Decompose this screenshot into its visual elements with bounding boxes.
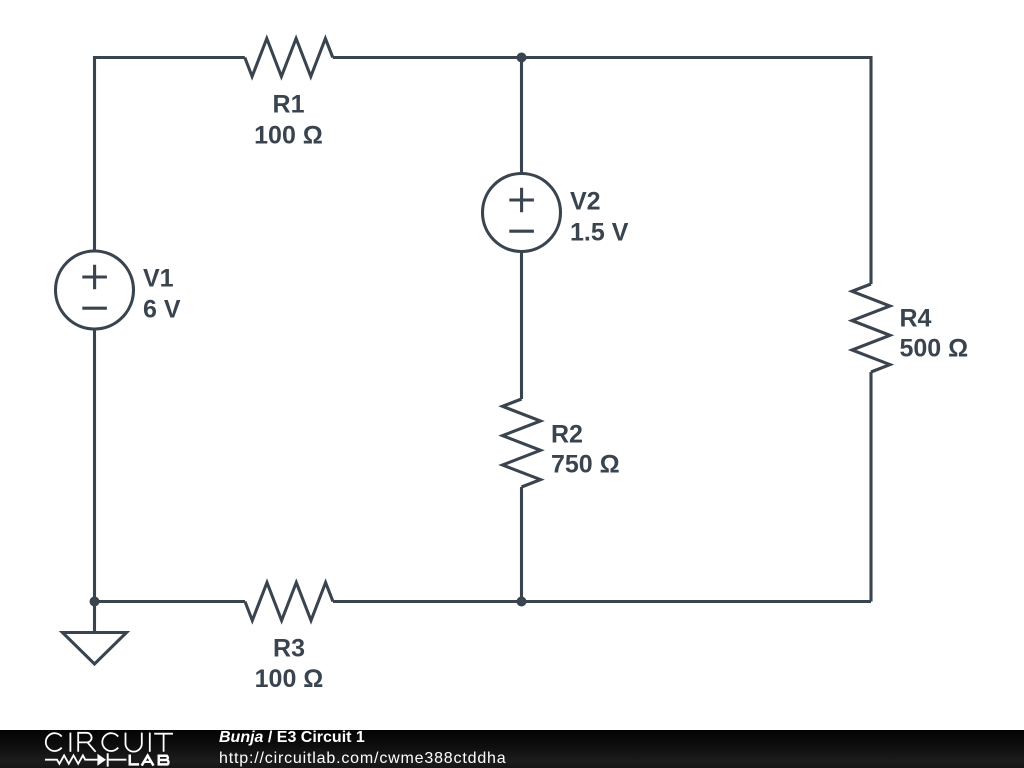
footer url (219, 750, 507, 768)
logo word LAB letter B (159, 755, 169, 766)
svg-text:V2: V2 (570, 188, 601, 216)
voltage source V1 (56, 251, 134, 329)
svg-text:100 Ω: 100 Ω (255, 665, 324, 693)
svg-text:R1: R1 (273, 91, 305, 119)
logo wire after diode (109, 759, 127, 761)
wire middle vertical (node A to V2 plus terminal) (520, 58, 523, 174)
footer title: Bunja / E3 Circuit 1 (219, 729, 365, 747)
svg-text:750 Ω: 750 Ω (551, 451, 620, 479)
logo letter T (154, 734, 173, 752)
svg-text:R2: R2 (551, 421, 583, 449)
wire top-left horizontal (node at V1 top to R1 left lead) (93, 56, 245, 59)
svg-text:100 Ω: 100 Ω (254, 122, 323, 150)
svg-text:6 V: 6 V (143, 296, 181, 324)
svg-text:R4: R4 (900, 305, 932, 333)
resistor R4 (852, 284, 890, 372)
CircuitLab logo (0, 730, 200, 768)
wire bottom horizontal (R3 right lead to node B) (333, 600, 522, 603)
node B junction dot (bottom center) (517, 597, 527, 607)
logo diode cathode bar (107, 753, 109, 766)
voltage source V2 (483, 174, 561, 252)
svg-text:500 Ω: 500 Ω (900, 335, 969, 363)
logo diode triangle (97, 754, 106, 766)
wire top horizontal (node A to top-right corner) (522, 56, 872, 59)
svg-text:R3: R3 (273, 635, 305, 663)
wire left vertical (V1 minus terminal down to ground node) (93, 329, 96, 602)
wire right vertical (R4 bottom lead to bottom-right corner) (869, 372, 872, 602)
logo resistor squiggle (45, 755, 97, 763)
logo letter C (46, 733, 62, 751)
resistor R3 (245, 583, 333, 621)
logo word LAB letter A (142, 756, 154, 766)
logo letter R (78, 733, 95, 752)
logo letter U (126, 733, 142, 752)
node ground junction dot (90, 597, 100, 607)
wire middle vertical (V2 minus terminal to R2 top lead) (520, 251, 523, 399)
wire bottom horizontal (ground node to R3 left lead) (95, 600, 246, 603)
logo letter I (69, 733, 71, 752)
node A junction dot (top center) (517, 53, 527, 63)
wire middle vertical (R2 bottom lead to node B) (520, 487, 523, 602)
wire bottom horizontal (node B to bottom-right corner) (522, 600, 872, 603)
wire left vertical (top corner down to V1 plus terminal) (93, 56, 96, 252)
ground (63, 602, 127, 665)
logo letter C (102, 733, 118, 751)
resistor R1 (245, 39, 333, 77)
footer bar (0, 730, 1024, 768)
resistor R2 (503, 399, 541, 487)
svg-text:1.5 V: 1.5 V (570, 219, 629, 247)
logo word LAB letter L (129, 755, 140, 765)
wire right vertical (top-right corner to R4 top lead) (869, 56, 872, 284)
logo letter I (149, 733, 151, 752)
wire top horizontal (R1 right lead to node A) (333, 56, 522, 59)
svg-text:V1: V1 (143, 265, 174, 293)
